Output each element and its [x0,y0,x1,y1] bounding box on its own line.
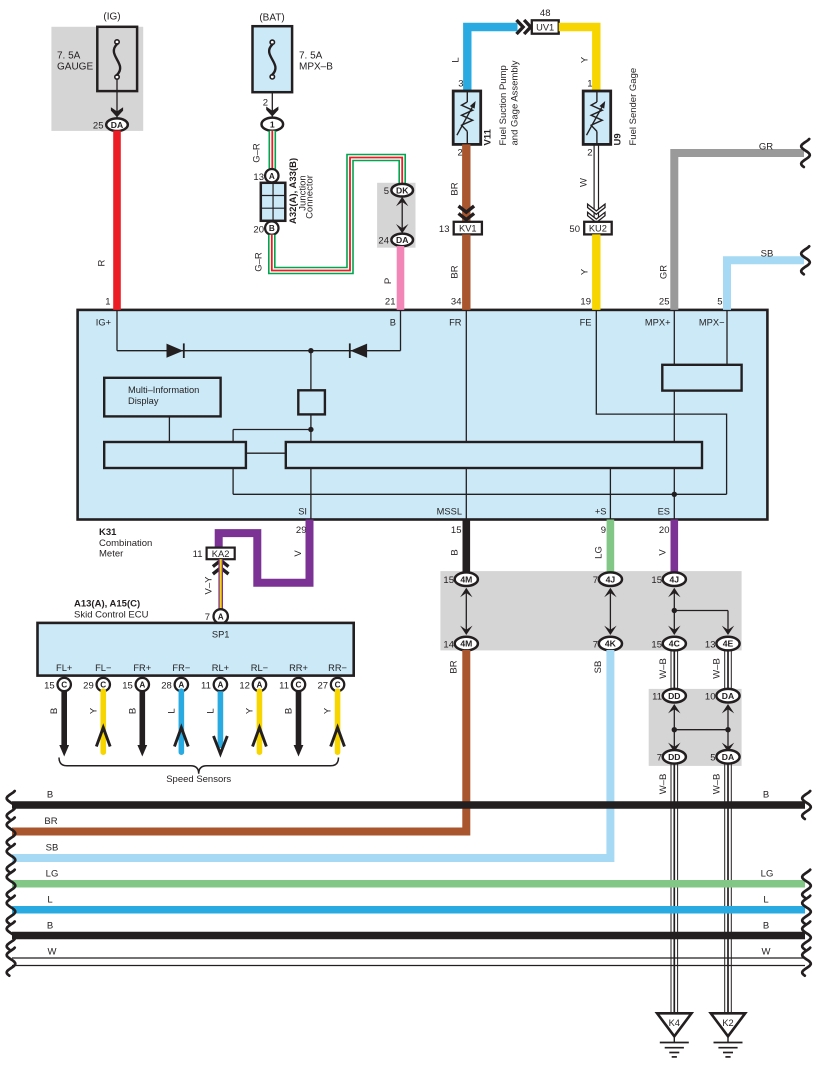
svg-text:15: 15 [651,639,662,650]
svg-text:1: 1 [587,79,592,90]
svg-text:W–B: W–B [658,774,669,795]
fuel sender gage U9 [583,91,611,144]
svg-text:11: 11 [652,692,662,703]
svg-text:B: B [763,790,769,801]
svg-text:12: 12 [239,680,250,691]
arrow below DA [722,704,734,713]
wire FE internal path [596,310,726,494]
svg-text:LG: LG [761,869,774,880]
arrow below 4J ES [668,588,680,597]
svg-text:SI: SI [298,507,307,517]
svg-text:FL−: FL− [95,663,111,673]
svg-text:BR: BR [44,816,57,827]
shaded region around DK/DA connectors [377,183,415,248]
svg-text:5: 5 [384,186,389,197]
svg-text:48: 48 [540,8,551,19]
svg-text:9: 9 [601,525,606,536]
svg-text:GR: GR [759,142,773,153]
connector 7 4K [599,637,622,651]
svg-text:13: 13 [253,172,264,183]
break squiggle B bottom right [802,922,811,950]
arrow chevrons into UV1 [517,20,524,34]
wire 4J to branch node [673,592,675,611]
arrow into 4E [722,626,734,635]
svg-text:15: 15 [443,575,454,586]
svg-text:BR: BR [450,182,461,195]
ground K2 [711,1013,745,1036]
arrow pair between DK and DA [396,197,408,206]
fuel suction pump V11 [453,91,481,144]
svg-text:RL−: RL− [251,663,268,673]
svg-text:14: 14 [443,639,454,650]
mpx interface block [662,365,741,391]
arrow chevrons into KV1 [459,206,475,212]
svg-text:SB: SB [593,661,604,674]
ground K4 [657,1013,691,1036]
wire left block to main block [246,452,286,454]
svg-text:4E: 4E [723,639,734,649]
wire GR from right to meter MPX+ pin 25 [674,153,804,310]
shaded region around 4M/4J/4K/4C/4E connectors [440,571,741,650]
svg-text:13: 13 [705,639,716,650]
svg-text:11: 11 [201,680,211,691]
svg-text:LG: LG [46,869,59,880]
svg-text:+S: +S [595,507,607,517]
svg-text:G–R: G–R [252,143,263,163]
connector 15 4M [455,572,478,586]
svg-text:B: B [763,921,769,932]
wire V from meter SI pin 29 to KA2 [219,520,310,583]
svg-text:L: L [47,895,52,906]
wire internal bottom horizontal [233,493,726,495]
svg-text:(IG): (IG) [103,12,120,23]
gauge driver small box [298,390,325,414]
wire Y speed sensor 2 [100,691,106,752]
svg-text:15: 15 [451,525,462,536]
svg-text:4J: 4J [606,574,616,584]
svg-text:L: L [166,708,177,713]
arrow pair between 4M connectors [460,588,472,597]
wire W-B from DA to ground K2 [724,763,726,1013]
wire DA to lower DA [727,708,729,748]
svg-text:19: 19 [580,297,591,308]
svg-text:RR+: RR+ [289,663,308,673]
svg-text:3: 3 [458,79,463,90]
break squiggle B bottom left [7,922,16,950]
svg-text:A: A [256,681,262,690]
svg-text:15: 15 [651,575,662,586]
svg-text:Skid Control ECU: Skid Control ECU [74,609,149,620]
svg-text:ES: ES [658,507,670,517]
svg-text:(BAT): (BAT) [259,13,284,24]
svg-text:SB: SB [761,249,774,260]
svg-text:Y: Y [580,268,591,275]
wire G-R from junction B to DK connector [272,158,402,271]
wire fuse BAT output [271,92,273,118]
arrow chevrons below KA2 [213,568,229,574]
wire B internal vertical [400,310,402,351]
svg-text:7: 7 [593,639,598,650]
svg-text:B: B [284,708,295,714]
wire Y speed sensor 8 [335,691,341,752]
wire L from V11 to UV1 [467,27,517,91]
svg-text:GR: GR [659,265,670,279]
svg-text:A: A [178,681,184,690]
svg-text:Y: Y [244,707,255,714]
arrow into DA connector [111,107,123,117]
svg-text:Speed Sensors: Speed Sensors [166,774,231,785]
wire MPX- internal vertical [726,310,728,365]
left internal block [104,442,246,468]
wire internal horizontal IG+ to B [117,350,401,352]
connector 11 DD [663,689,686,703]
svg-text:MPX–B: MPX–B [299,62,333,73]
svg-text:4K: 4K [605,639,617,649]
svg-text:L: L [451,57,462,62]
svg-text:4M: 4M [460,574,472,584]
svg-text:29: 29 [83,680,94,691]
bus wire L [12,906,805,914]
svg-text:11: 11 [279,680,289,691]
wire W from U9 to KU2 [593,144,595,221]
arrow into lower DA [722,743,734,752]
wire B speed sensor 3 [140,691,146,745]
svg-text:L: L [763,895,768,906]
connector 7 DD [663,750,686,764]
svg-text:1: 1 [270,119,275,129]
svg-text:B: B [269,224,275,233]
svg-text:Fuel Sender Gage: Fuel Sender Gage [628,68,639,146]
svg-text:10: 10 [705,692,716,703]
break squiggle B top right [802,791,811,819]
svg-text:FR: FR [449,318,462,328]
svg-text:W: W [48,947,57,958]
node junction on SI line [308,427,313,432]
wire SB from right to meter MPX- pin 5 [727,260,804,310]
svg-text:R: R [97,259,108,266]
svg-text:2: 2 [587,148,592,159]
svg-text:DD: DD [668,691,680,701]
svg-text:11: 11 [193,549,203,560]
svg-text:MSSL: MSSL [437,507,462,517]
wire Y speed sensor 6 [257,691,263,752]
wire W-B from DD to ground K4 [670,763,672,1013]
svg-text:B: B [390,318,396,328]
svg-text:SB: SB [46,843,59,854]
wire branch node to 4C [673,611,675,632]
svg-text:24: 24 [378,236,389,247]
svg-text:20: 20 [253,225,264,236]
skid ECU pin 7 A [214,609,228,623]
svg-text:15: 15 [44,680,55,691]
svg-text:GAUGE: GAUGE [57,62,93,73]
svg-text:21: 21 [385,297,396,308]
svg-text:W: W [762,947,771,958]
svg-text:B: B [47,921,53,932]
svg-text:and Gage Assembly: and Gage Assembly [510,60,521,145]
wire IG+ internal vertical [116,310,118,351]
wire B speed sensor 1 [61,691,67,745]
arrow open chevrons into KU2 [588,204,605,214]
svg-text:A: A [217,681,223,690]
break squiggle LG right [802,870,811,898]
junction connector A32(A) A33(B) [261,183,286,221]
svg-text:C: C [296,681,302,690]
wire SI internal vertical [310,414,312,519]
svg-text:KV1: KV1 [459,223,477,233]
node ES branch [672,608,677,613]
skid control ECU box [38,623,354,676]
break squiggle W left [7,948,16,976]
bus wire B top [12,801,805,809]
svg-text:FR−: FR− [172,663,190,673]
wire P from DA to meter B pin 21 [397,246,405,310]
svg-text:DK: DK [396,185,409,195]
svg-text:25: 25 [93,121,104,132]
svg-text:7. 5A: 7. 5A [57,51,81,62]
svg-text:B: B [49,708,60,714]
svg-text:C: C [100,681,106,690]
wire BR from KV1 to meter FR pin 34 [462,234,470,310]
svg-text:34: 34 [451,297,462,308]
svg-text:DA: DA [396,235,408,245]
svg-text:13: 13 [439,224,450,235]
break squiggle B top left [7,791,16,819]
svg-text:5: 5 [710,753,715,764]
wire V from meter ES pin 20 to 4J [670,520,678,574]
svg-text:1: 1 [105,297,110,308]
svg-text:V–Y: V–Y [204,576,215,595]
svg-text:MPX−: MPX− [699,318,725,328]
break squiggle L right [802,896,811,924]
arrow into lower DD [668,743,680,752]
wire R from DA to meter IG+ pin 1 [113,131,121,310]
wire W-B from 4E to DA [724,650,726,690]
break squiggle W right [802,948,811,976]
connector 15 4C [663,637,686,651]
svg-text:4J: 4J [670,574,680,584]
wire horizontal to SI node [233,429,311,431]
svg-text:FE: FE [580,318,592,328]
svg-text:Y: Y [323,707,334,714]
wire B from meter MSSL pin 15 to 4M [462,520,470,574]
svg-text:V11: V11 [483,128,494,145]
wire G-R from connector 1 to junction connector A [268,131,276,169]
wire ES internal vertical [673,468,675,520]
wire vertical through left block [232,430,234,495]
wire W-B from 4C to DD [670,650,672,690]
svg-text:4C: 4C [669,639,680,649]
svg-text:C: C [335,681,341,690]
svg-text:20: 20 [659,525,670,536]
svg-text:U9: U9 [613,133,624,145]
svg-text:Display: Display [128,396,159,406]
wire B speed sensor 7 [296,691,302,745]
speed sensors brace [59,758,339,774]
arrow below DD [668,704,680,713]
arrow pair between 4J and 4K [604,588,616,597]
svg-text:MPX+: MPX+ [645,318,671,328]
svg-text:W–B: W–B [712,658,723,679]
break squiggle SB right [801,246,810,274]
wire +S internal vertical [609,468,611,520]
svg-text:Multi–Information: Multi–Information [128,385,199,395]
svg-text:UV1: UV1 [536,22,554,32]
svg-text:W: W [579,178,590,187]
svg-text:B: B [47,790,53,801]
wire V-Y from KA2 to skid ECU SP1 [218,559,223,610]
bus wire B bottom [12,932,805,940]
svg-text:Fuel Suction Pump: Fuel Suction Pump [498,65,509,145]
diode D1 [167,344,184,358]
node junction on ES line [672,492,677,497]
svg-text:29: 29 [296,525,307,536]
break squiggle SB left [7,844,16,872]
svg-text:K2: K2 [722,1018,733,1028]
svg-text:7: 7 [205,612,210,623]
svg-text:W–B: W–B [712,774,723,795]
main internal block [286,442,702,468]
bus wire LG [12,880,805,888]
svg-text:V: V [658,549,669,556]
svg-text:Y: Y [580,56,591,63]
svg-text:KU2: KU2 [589,223,607,233]
wire SB from 4K to SB bus [12,650,610,858]
svg-text:B: B [127,708,138,714]
shaded region around DD/DA connectors [649,689,742,766]
svg-text:G–R: G–R [254,252,265,272]
svg-text:DA: DA [722,691,734,701]
svg-text:Connector: Connector [305,175,316,219]
wire Y from UV1 to U9 [559,27,597,91]
wire MID to left block vertical [168,416,170,442]
svg-text:15: 15 [122,680,133,691]
svg-text:W–B: W–B [658,658,669,679]
connector 13 4E [716,637,739,651]
svg-text:V: V [293,550,304,557]
svg-text:DA: DA [111,120,123,130]
connector 7 4J [599,572,622,586]
combination meter K31 box [78,310,768,520]
wire Y from KU2 to meter FE pin 19 [592,234,600,310]
connector 15 4J ES [663,572,686,586]
svg-text:7: 7 [657,753,662,764]
svg-text:KA2: KA2 [212,549,230,559]
connector 5 DK [391,184,413,197]
wire tie between ground columns [674,729,728,731]
wire L speed sensor 5 [218,691,224,748]
svg-text:B: B [450,549,461,555]
wire DD to lower DD [673,708,675,748]
connector 1 [262,118,284,131]
svg-text:K4: K4 [669,1018,680,1028]
wire BR from V11 to KV1 [462,144,470,221]
arrow into 4C [668,626,680,635]
svg-text:K31: K31 [99,527,117,538]
connector 10 DA [716,689,739,703]
bus wire W [12,957,805,959]
svg-text:4M: 4M [460,639,472,649]
wire MSSL internal vertical [465,468,467,520]
svg-text:Meter: Meter [99,548,123,559]
svg-text:A: A [218,613,224,622]
node junction on IG+/B line [308,348,313,353]
wire branch node to 4E [674,610,728,612]
wire L speed sensor 4 [179,691,185,752]
svg-text:FL+: FL+ [56,663,72,673]
svg-text:5: 5 [717,297,722,308]
svg-text:7: 7 [593,575,598,586]
connector 5 DA [716,750,739,764]
junction pin B [265,221,278,234]
wire BR from 4M to BR bus [12,650,466,832]
arrow into connector 1 [266,107,278,117]
svg-text:25: 25 [659,297,670,308]
connector 25 DA [106,118,128,131]
svg-text:RR−: RR− [328,663,347,673]
multi-information display box [104,378,220,417]
break squiggle GR right [801,139,810,167]
svg-text:Combination: Combination [99,538,152,549]
wire junction down to gauge driver box [310,351,312,391]
svg-text:A13(A), A15(C): A13(A), A15(C) [74,599,140,610]
wire FR internal vertical [465,310,467,442]
connector 24 DA [391,234,413,247]
svg-text:RL+: RL+ [212,663,229,673]
break squiggle L left [7,896,16,924]
break squiggle BR left [7,818,16,846]
wire mpx block to main block vertical [673,391,675,442]
svg-text:FR+: FR+ [133,663,151,673]
svg-text:BR: BR [450,265,461,278]
connector 11 KA2 [207,548,235,560]
svg-text:C: C [61,681,67,690]
svg-text:A: A [139,681,145,690]
svg-text:Y: Y [88,707,99,714]
svg-text:28: 28 [161,680,172,691]
svg-text:SP1: SP1 [212,630,230,640]
connector 14 4M [455,637,478,651]
diode D2 [350,344,367,358]
connector 13 KV1 [454,222,482,235]
wire MPX+ internal vertical [673,310,675,365]
svg-text:2: 2 [458,148,463,159]
svg-text:LG: LG [594,546,605,559]
svg-text:50: 50 [569,224,580,235]
svg-text:L: L [205,708,216,713]
svg-text:7. 5A: 7. 5A [299,51,323,62]
node tie right [725,727,730,732]
wire LG from meter +S pin 9 to 4J [607,520,615,574]
svg-text:DD: DD [668,752,680,762]
svg-text:A: A [269,172,275,181]
svg-text:BR: BR [449,660,460,673]
svg-text:DA: DA [722,752,734,762]
wire fuse IG output [116,79,118,119]
junction pin A [265,169,278,182]
break squiggle LG left [7,870,16,898]
svg-text:27: 27 [317,680,328,691]
svg-text:P: P [383,278,394,284]
node tie left [672,727,677,732]
shaded region around (IG) fuse [51,27,143,131]
svg-text:IG+: IG+ [96,318,111,328]
svg-text:2: 2 [263,98,268,109]
connector 50 KU2 [584,222,612,235]
